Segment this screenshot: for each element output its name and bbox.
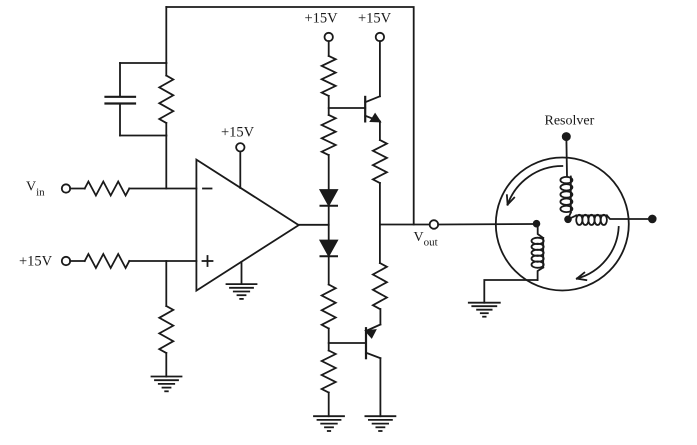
wire base Q2 [329, 342, 366, 344]
wire op-amp output [299, 224, 329, 226]
wire Vout left [380, 224, 430, 226]
inductor L2 right coil [576, 215, 607, 225]
arrow arc top-left [507, 166, 562, 205]
ground at R4 [152, 377, 182, 392]
resistor R10 [373, 225, 387, 310]
wire R5 to R6 [328, 96, 330, 115]
wire to R5 [328, 41, 330, 56]
resolver body circle [496, 158, 629, 291]
arrow arc bottom-right [577, 227, 619, 280]
wire D2 to R7 [328, 256, 330, 284]
wire RC top [120, 62, 166, 64]
ground at chain [314, 416, 344, 431]
label +15V op-amp [221, 124, 255, 140]
wire resolver to ground [484, 280, 537, 303]
wire op-amp supply [239, 152, 241, 189]
transistor Q2 [366, 325, 380, 359]
terminal resolver right [649, 216, 656, 223]
label +15V chain1 [305, 11, 339, 27]
resistor R9 [373, 140, 387, 183]
wire R10 to Q2 emitter [379, 309, 381, 325]
transistor Q1 [365, 96, 380, 121]
diode D1 [321, 190, 338, 206]
op-amp U1 [196, 160, 298, 291]
label Vout [414, 230, 438, 249]
svg-text:+15V: +15V [19, 254, 53, 270]
wire RC bottom [120, 135, 166, 137]
node resolver left [534, 221, 540, 227]
terminal Vin [62, 184, 70, 192]
wire +15V input [70, 260, 85, 262]
wire L2 entry [568, 215, 576, 219]
wire R9 to Vout [379, 183, 381, 225]
resistor R8 [322, 351, 336, 393]
svg-text:Vout: Vout [414, 230, 438, 249]
wire R1 to op-amp [129, 188, 196, 190]
resistor R4 to ground [159, 261, 173, 377]
resistor R5 [322, 56, 336, 96]
inductor L1 top coil [560, 177, 572, 213]
terminal +15V op-amp [236, 143, 244, 151]
node resolver center [565, 216, 571, 222]
wire feedback to inverting input [165, 136, 167, 189]
wire R6 to D1 [328, 155, 330, 190]
terminal +15V input [62, 257, 70, 265]
capacitor C1 [106, 63, 136, 136]
wire L2 to terminal [607, 215, 649, 219]
svg-text:+15V: +15V [358, 11, 392, 27]
resistor R2 feedback [159, 63, 173, 136]
wire R3 to op-amp [129, 260, 196, 262]
ground at op-amp [227, 284, 257, 299]
label Vin [26, 180, 45, 199]
label Resolver [545, 113, 595, 128]
resistor R7 [322, 285, 336, 329]
wire Q2 collector [379, 358, 381, 416]
terminal resolver top [563, 133, 570, 140]
wire Vin [70, 188, 85, 190]
wire Q1 collector [379, 41, 381, 96]
svg-text:Resolver: Resolver [545, 113, 595, 128]
wire Q1 emitter [379, 122, 381, 141]
terminal +15V chain1 [325, 33, 333, 41]
svg-text:Vin: Vin [26, 180, 45, 199]
wire Vout to resolver [438, 223, 534, 226]
wire L1 to center [568, 213, 571, 220]
label +15V input [19, 254, 53, 270]
wire op-amp to ground [241, 262, 243, 284]
wire feedback left vertical [165, 7, 167, 63]
resistor R6 [322, 115, 336, 155]
op-amp plus [203, 256, 213, 266]
op-amp minus [203, 188, 212, 190]
ground at resolver [469, 303, 500, 317]
wire R7 to R8 [328, 329, 330, 351]
wire top feedback [166, 7, 413, 225]
wire resolver top [565, 139, 568, 177]
svg-text:+15V: +15V [221, 124, 255, 140]
label +15V chain2 [358, 11, 392, 27]
wire R8 to ground [328, 393, 330, 417]
resistor R1 input [85, 182, 130, 196]
terminal Vout [430, 220, 439, 229]
wire base Q1 [329, 107, 366, 109]
diode D2 [321, 241, 338, 257]
resistor R3 input [85, 254, 130, 268]
svg-text:+15V: +15V [305, 11, 339, 27]
terminal +15V chain2 [376, 33, 384, 41]
ground at Q2 [365, 416, 395, 431]
inductor L3 left coil [532, 227, 544, 281]
wire D1 to D2 [328, 206, 330, 241]
